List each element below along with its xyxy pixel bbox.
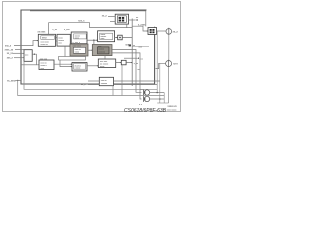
svg-text:x_xxx: x_xxx [64, 29, 70, 31]
wire C down to L [64, 46, 66, 56]
wire A to C 2 [56, 40, 58, 42]
wire top from block A to block G [49, 23, 133, 35]
feedback wire bottom long [18, 81, 165, 96]
junction dot [93, 39, 95, 41]
block C [57, 34, 70, 46]
feedback wire bottom short [24, 61, 157, 89]
block K comparator [72, 63, 87, 72]
wire down from E-G wire to F2 [93, 40, 95, 44]
wire pin4 to block B [14, 57, 24, 59]
wire L to K [60, 60, 72, 67]
block A bandgap [38, 34, 55, 46]
wire I1 to pin cap 1 [157, 30, 167, 32]
svg-text:xx_xx: xx_xx [7, 52, 14, 55]
wire pin1 down to pin2 [168, 35, 170, 60]
svg-text:xxx_x: xxx_x [7, 57, 14, 60]
wire D to K [54, 63, 72, 65]
wire top of x132 to regulator [132, 26, 148, 31]
junction dot Q1 [156, 92, 158, 94]
wire F1 F2 [88, 49, 92, 51]
wire bus right y46.5 [132, 46, 149, 48]
IC boundary U1 [21, 10, 155, 84]
svg-text:x xxxx: x xxxx [75, 68, 82, 70]
wire A to C [56, 37, 58, 39]
wire N left stub 1 [88, 80, 99, 82]
svg-text:CS0618/6P8F-63B: CS0618/6P8F-63B [124, 108, 167, 114]
svg-text:xxxxx: xxxxx [98, 49, 104, 51]
junction dot pin5 [17, 80, 18, 81]
wire supply top to regulator [30, 11, 146, 27]
wire N out 1 [114, 80, 160, 82]
vertical wire x164 [163, 93, 165, 104]
svg-text:xxx_x: xxx_x [5, 45, 12, 48]
block D amp [39, 60, 54, 70]
svg-text:xxx xx: xxx xx [101, 80, 108, 82]
block M pwm [98, 59, 115, 68]
wire bus right y58 [124, 57, 137, 59]
wire Q2 out [150, 98, 165, 100]
wire pin5 into chip [16, 80, 22, 82]
svg-text:xxxxxx: xxxxxx [101, 83, 108, 85]
wire E to G [87, 39, 98, 41]
svg-text:xx_x: xx_x [173, 31, 179, 34]
small box H1 [118, 35, 123, 40]
pin cap symbol 2 [166, 60, 172, 68]
vertical bus wire x132 [131, 19, 133, 87]
svg-text:xxxx_xx: xxxx_xx [5, 48, 14, 51]
svg-text:xx_x: xx_x [102, 14, 108, 17]
wire osc right to IC edge [129, 19, 136, 21]
svg-text:xxx xxx: xxx xxx [40, 58, 48, 60]
svg-text:xxxx xxxxx: xxxx xxxxx [167, 109, 177, 111]
svg-text:xxxxxx: xxxxxx [98, 52, 105, 54]
gray block F2 core [92, 45, 112, 56]
svg-text:xx_xxxx: xx_xxxx [7, 79, 16, 82]
gray block F1 DSP [70, 44, 88, 56]
wire H1 right [122, 37, 132, 39]
wire chip to pin2 [156, 63, 167, 68]
bottom right rail [157, 102, 168, 104]
wire pin2 to block B [15, 49, 24, 51]
wire pin1 into chip to block A [14, 41, 38, 46]
wire M to H2 [116, 62, 122, 64]
wire H2 right [126, 62, 132, 64]
wire F2 out 2 to driver [112, 53, 142, 99]
svg-text:xxx xxxx: xxx xxxx [41, 41, 50, 43]
oscillator box U2 [115, 14, 128, 24]
junction dot Q2 [159, 98, 161, 100]
svg-text:xxxx xx: xxxx xx [41, 44, 49, 46]
transistor Q2 [144, 96, 150, 102]
block N xtal bottom [99, 77, 113, 85]
vertical wire x161 [159, 63, 161, 103]
svg-text:xx xxxx: xx xxxx [38, 31, 47, 34]
svg-text:xxxxx-xx: xxxxx-xx [168, 105, 178, 108]
pin cap symbol 1 [166, 28, 172, 35]
wire Q1 out [150, 92, 165, 94]
flat box L [59, 57, 86, 61]
vertical wire right chip outer [156, 31, 158, 93]
transistor Q1 [144, 90, 150, 96]
regulator box I1 [148, 28, 157, 35]
wire F2 out 1 to driver [112, 50, 142, 93]
wire pin2 down [168, 67, 170, 103]
small box H2 [121, 60, 126, 65]
svg-text:xxxxx: xxxxx [58, 40, 64, 42]
wire N left stub 2 [88, 84, 99, 86]
wire F2 down to M [104, 56, 106, 59]
wire N out 2 [114, 84, 158, 86]
block E control [71, 32, 87, 44]
wire osc left 1 [108, 16, 115, 18]
wire K to M [87, 65, 98, 67]
svg-text:x_xxx_x: x_xxx_x [73, 42, 81, 44]
svg-text:xxxx: xxxx [101, 38, 105, 40]
svg-text:xx-x: xx-x [173, 63, 178, 66]
wire H2 down [121, 65, 123, 96]
wire B output to D [32, 54, 39, 65]
wire vertical below N [112, 86, 114, 96]
wire pin3 to block B [13, 52, 24, 54]
wire osc left 2 [110, 21, 115, 23]
wire osc down [126, 24, 128, 28]
svg-text:xxx_x: xxx_x [78, 20, 85, 23]
block B input mux [24, 50, 32, 62]
block G modulator [98, 31, 115, 42]
svg-text:x_xxxx: x_xxxx [138, 24, 146, 27]
wire G to H1 [115, 37, 118, 39]
border frame [3, 2, 181, 112]
